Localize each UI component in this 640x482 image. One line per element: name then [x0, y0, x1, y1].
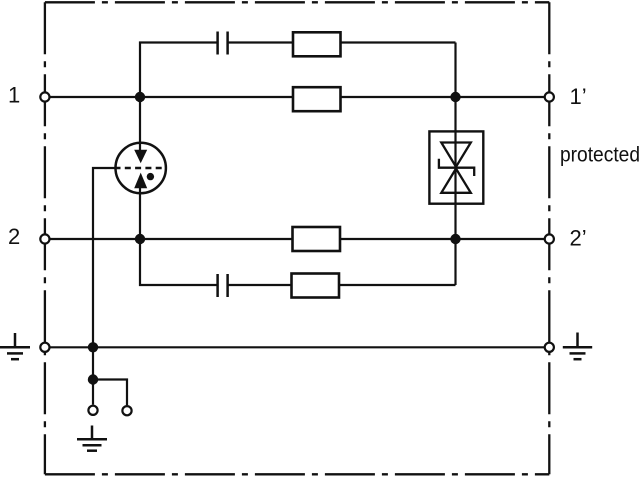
- wire top branch left riser: [140, 43, 218, 98]
- terminal 1': [545, 92, 554, 101]
- junction node line2-left: [135, 234, 145, 244]
- svg-text:1: 1: [8, 83, 20, 108]
- disconnect terminal left: [88, 406, 97, 415]
- capacitor C1 (top branch): [218, 32, 228, 55]
- junction node disconnect: [88, 374, 98, 384]
- junction node line1-right: [450, 92, 460, 102]
- terminal 2: [40, 234, 49, 243]
- enclosure border left (dash-dot): [44, 2, 46, 474]
- ground symbol left: [0, 333, 30, 359]
- enclosure border bottom (dash-dot): [45, 473, 549, 475]
- ground symbol right: [563, 333, 592, 360]
- svg-text:1’: 1’: [570, 84, 587, 109]
- enclosure border right (dash-dot): [548, 2, 550, 474]
- wire top branch middle: [228, 41, 456, 43]
- wire top branch right riser: [454, 43, 456, 98]
- junction node PE: [88, 342, 98, 352]
- gas discharge tube F1: [115, 143, 168, 194]
- wire ground drop: [92, 347, 94, 379]
- terminal 2': [545, 234, 554, 243]
- svg-text:protected: protected: [560, 143, 640, 167]
- disconnect terminal right: [122, 406, 131, 415]
- ground terminal right: [545, 343, 554, 352]
- svg-text:2: 2: [8, 224, 20, 249]
- junction node line1-left: [135, 92, 145, 102]
- wire disconnect left leg: [92, 380, 94, 405]
- ground terminal left: [40, 343, 49, 352]
- wire ground line PE: [45, 346, 549, 348]
- wire line 2 (terminal 2 to terminal 2'): [45, 238, 549, 240]
- resistor R2 (line 1): [293, 87, 341, 111]
- resistor R1 (top branch): [293, 32, 341, 56]
- ground symbol bottom: [77, 426, 107, 451]
- resistor R4 (bottom branch): [292, 274, 340, 298]
- suppressor diode V1: [429, 97, 483, 239]
- svg-text:2’: 2’: [570, 225, 587, 250]
- wire bottom branch middle: [228, 284, 456, 286]
- wire line 1 (terminal 1 to terminal 1'): [45, 96, 549, 98]
- terminal 1: [40, 92, 49, 101]
- wire GDT top lead: [139, 97, 141, 145]
- junction node line2-right: [450, 234, 460, 244]
- wire disconnect right leg: [93, 380, 127, 406]
- wire GDT gas electrode to ground column: [93, 168, 116, 347]
- wire bottom branch right riser: [454, 239, 456, 285]
- enclosure border top (dash-dot): [45, 1, 549, 3]
- resistor R3 (line 2): [293, 227, 341, 251]
- wire GDT bottom lead: [139, 191, 141, 239]
- capacitor C2 (bottom branch): [218, 274, 228, 297]
- wire bottom branch left riser: [140, 239, 218, 285]
